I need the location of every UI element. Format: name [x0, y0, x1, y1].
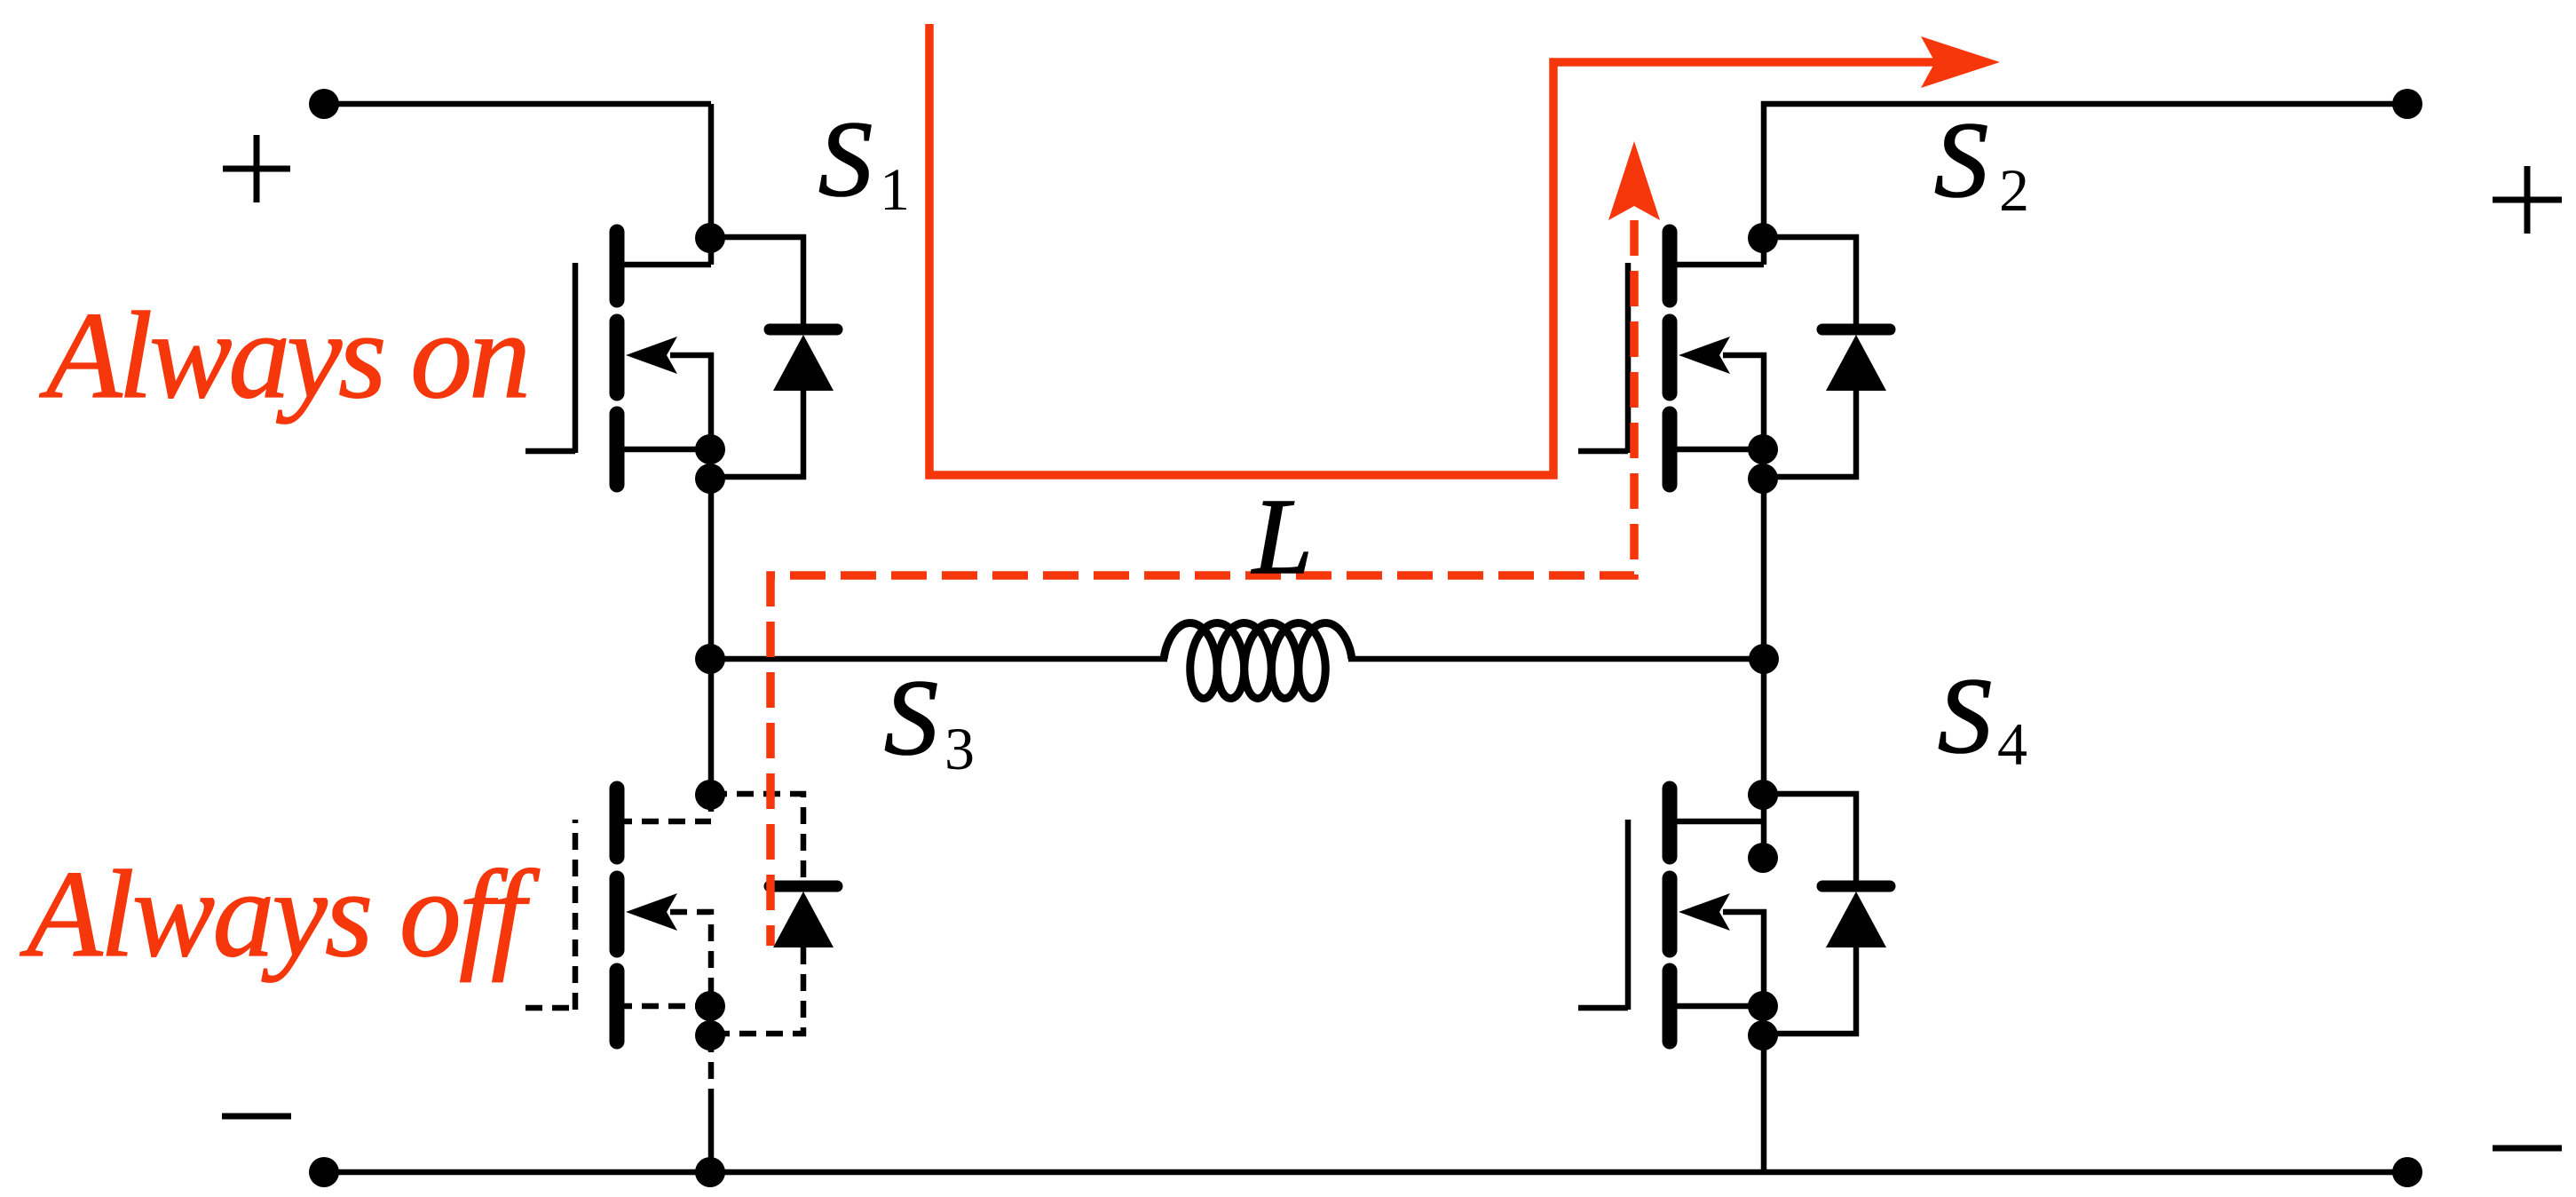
node: S2 drain junction: [1748, 223, 1778, 253]
node: S3 drain junction: [695, 780, 725, 810]
node: S4 diode return junction: [1748, 1020, 1778, 1050]
node: S2 source stub junction: [1748, 434, 1778, 464]
diode: S3 body diode: [710, 794, 837, 1034]
node B: right switch node: [1749, 644, 1779, 674]
wire: node A down to S3 drain: [708, 659, 715, 795]
svg-text:Always off: Always off: [20, 845, 541, 983]
wire: S1 drain lead from + rail: [708, 104, 715, 265]
node: S3 diode return junction: [695, 1020, 725, 1050]
label: input - sign: [222, 1114, 291, 1120]
wire: S3 drain lead (dashed): [708, 795, 715, 821]
node A: left switch node: [695, 644, 725, 674]
svg-text:S: S: [1938, 656, 1992, 776]
node: S1 source stub junction: [695, 434, 725, 464]
node: S4 drain junction: [1748, 780, 1778, 810]
svg-text:2: 2: [1999, 156, 2029, 224]
node: S1 diode return junction: [695, 464, 725, 494]
label: output - sign: [2493, 1145, 2562, 1152]
svg-text:3: 3: [944, 715, 975, 782]
node: S1 drain junction: [695, 223, 725, 253]
wire: negative rail (bottom): [324, 1169, 2407, 1176]
red dashed: inductor current path: [770, 220, 1634, 946]
node: S3 source stub junction: [695, 991, 725, 1021]
svg-text:S: S: [884, 658, 938, 778]
svg-text:4: 4: [1997, 710, 2027, 778]
node: S3 to negative rail junction: [695, 1157, 725, 1187]
transistor S2 (MOSFET): [1578, 232, 1764, 485]
diode: S2 body diode: [1763, 237, 1890, 477]
node: output - terminal: [2392, 1157, 2422, 1187]
svg-text:L: L: [1251, 477, 1313, 597]
node: S4 source stub junction: [1748, 991, 1778, 1021]
inductor L: [1164, 623, 1352, 699]
wire: S4 source to negative rail: [1761, 1035, 1767, 1172]
svg-text:S: S: [818, 99, 873, 219]
svg-text:Always on: Always on: [39, 287, 531, 424]
wire: node A to inductor: [711, 656, 1167, 662]
wire: S1 source down to node A: [708, 449, 715, 659]
wire: S3 source lead (dashed): [708, 1035, 715, 1090]
label: output + sign: [2493, 166, 2562, 234]
diode: S4 body diode: [1763, 794, 1890, 1034]
transistor S3 (MOSFET, always off, dashed): [525, 789, 711, 1042]
transistor S4 (MOSFET): [1578, 789, 1764, 1042]
node: input + terminal: [309, 89, 339, 119]
wire: S3 source to negative rail: [708, 1090, 715, 1172]
wire: S2 source down to node B: [1761, 449, 1767, 659]
svg-text:S: S: [1934, 100, 1988, 220]
svg-text:1: 1: [880, 155, 910, 223]
node: S2 diode return junction: [1748, 464, 1778, 494]
diode: S1 body diode: [710, 237, 837, 477]
wire: node B down to S4 drain: [1761, 659, 1767, 855]
transistor S1 (MOSFET, always on): [525, 232, 711, 485]
red solid: current path through S1: [929, 24, 1940, 475]
wire: input positive rail (top left): [324, 101, 711, 107]
red dashed arrowhead: [1608, 141, 1660, 220]
label: input + sign: [223, 135, 290, 202]
node: input - terminal: [309, 1157, 339, 1187]
wire: output positive rail (top right): [1764, 104, 2407, 265]
node: output + terminal: [2392, 89, 2422, 119]
red solid arrowhead: [1921, 36, 2000, 88]
node: S4 drain lead end: [1748, 843, 1778, 873]
wire: inductor to node B: [1348, 656, 1764, 662]
